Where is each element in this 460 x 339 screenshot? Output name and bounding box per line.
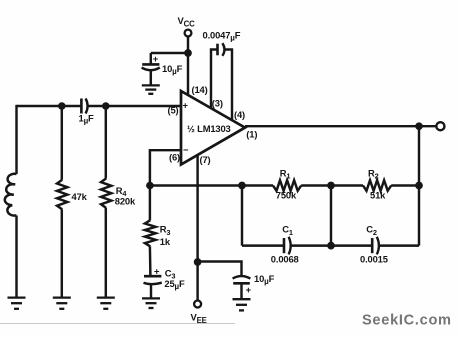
label 10uF (VCC) bbox=[162, 63, 183, 76]
svg-text:(1): (1) bbox=[246, 129, 257, 140]
watermark SeekIC.com bbox=[362, 313, 452, 329]
svg-text:(7): (7) bbox=[200, 154, 211, 165]
node VEE junction bbox=[194, 258, 202, 266]
label VCC bbox=[178, 15, 196, 29]
label + (10uF VCC) bbox=[153, 53, 159, 64]
label VEE bbox=[191, 311, 207, 325]
node VCC junction bbox=[184, 49, 192, 57]
pin label (1) bbox=[246, 129, 257, 140]
capacitor C3 25uF (polarized) bbox=[144, 276, 162, 298]
wire feedback mid vertical bbox=[330, 186, 332, 246]
pin label (3) bbox=[212, 97, 223, 108]
pin label (14) bbox=[192, 84, 208, 95]
resistor R1 750k bbox=[273, 180, 301, 191]
label C3 25uF bbox=[164, 267, 185, 291]
svg-text:750k: 750k bbox=[276, 189, 297, 200]
svg-text:51k: 51k bbox=[370, 189, 386, 200]
ground (VEE bypass) bbox=[233, 299, 251, 310]
capacitor 10uF (VCC bypass, polarized) bbox=[142, 53, 160, 85]
label R3 1k bbox=[160, 224, 171, 247]
pin label (7) bbox=[200, 154, 211, 165]
resistor R4 820k bbox=[101, 106, 111, 298]
svg-text:47k: 47k bbox=[72, 191, 88, 202]
op-amp U1 1/2 LM1303 bbox=[181, 91, 245, 165]
wire feedback right vertical bbox=[418, 126, 420, 245]
ground (47k) bbox=[53, 298, 71, 309]
node C1-C2 junction bbox=[327, 242, 335, 250]
node input/R4 junction bbox=[102, 102, 110, 110]
terminal output bbox=[436, 122, 444, 130]
scan artifact line bbox=[0, 323, 235, 325]
node R3/pin6 junction bbox=[146, 182, 154, 190]
wire input bus (antenna node to pin 5) bbox=[17, 105, 182, 107]
wire VCC to op-amp pin 14 bbox=[187, 37, 189, 95]
node input/47k junction bbox=[58, 102, 66, 110]
svg-text:(6): (6) bbox=[169, 151, 180, 162]
node output/feedback junction bbox=[415, 122, 423, 130]
wire VCC to C bypass bbox=[151, 52, 188, 54]
wire output (pin 1) bbox=[245, 125, 436, 127]
label 0.0047uF bbox=[203, 29, 241, 42]
svg-text:0.0015: 0.0015 bbox=[360, 254, 388, 265]
node feedback left bbox=[238, 182, 246, 190]
node R1-R2 junction bbox=[327, 182, 335, 190]
terminal VCC bbox=[185, 30, 192, 37]
svg-text:0.0068: 0.0068 bbox=[271, 254, 299, 265]
inductor L1 bbox=[5, 105, 17, 298]
capacitor 10uF (VEE bypass, polarized) bbox=[233, 276, 251, 299]
label C1 0.0068 bbox=[271, 224, 299, 265]
svg-text:(4): (4) bbox=[234, 109, 245, 120]
label 1uF bbox=[79, 113, 95, 126]
svg-text:(5): (5) bbox=[168, 105, 179, 116]
pin label (5) bbox=[168, 105, 179, 116]
svg-text:−: − bbox=[183, 144, 189, 155]
svg-text:+: + bbox=[154, 265, 160, 276]
wire VEE to 10uF bypass bbox=[198, 262, 242, 276]
svg-text:(14): (14) bbox=[192, 84, 208, 95]
wire inverting node row bbox=[150, 184, 242, 186]
label + (C3) bbox=[154, 265, 160, 276]
pin label (6) bbox=[169, 151, 180, 162]
pin label (4) bbox=[234, 109, 245, 120]
wire capacitor row bbox=[242, 244, 419, 246]
svg-text:½ LM1303: ½ LM1303 bbox=[187, 123, 231, 134]
capacitor 0.0047uF (pins 3-4) bbox=[211, 43, 232, 119]
label 47k bbox=[72, 191, 88, 202]
svg-text:1k: 1k bbox=[160, 236, 171, 247]
svg-text:820k: 820k bbox=[115, 196, 136, 207]
ground (C3) bbox=[142, 298, 160, 308]
resistor R3 1k bbox=[145, 186, 156, 276]
ground (inductor) bbox=[8, 298, 26, 309]
capacitor C2 0.0015 bbox=[372, 237, 379, 255]
wire feedback left vertical bbox=[241, 186, 243, 246]
node feedback right bbox=[415, 182, 423, 190]
capacitor C1 0.0068 bbox=[284, 237, 291, 255]
terminal VEE bbox=[194, 301, 201, 308]
label 10uF (VEE) bbox=[254, 273, 275, 286]
svg-text:+: + bbox=[153, 53, 159, 64]
wire pin 7 to VEE bbox=[196, 155, 198, 300]
wire feedback row bbox=[242, 184, 419, 186]
label R1 750k bbox=[276, 168, 297, 201]
svg-text:+: + bbox=[183, 99, 189, 110]
ground (VCC bypass) bbox=[142, 85, 160, 93]
label R4 820k bbox=[115, 185, 136, 207]
capacitor 1uF (series input) bbox=[81, 99, 87, 114]
label C2 0.0015 bbox=[360, 224, 388, 265]
svg-text:(3): (3) bbox=[212, 97, 223, 108]
svg-text:+: + bbox=[246, 284, 252, 295]
label R2 51k bbox=[368, 168, 386, 201]
ground (R4) bbox=[97, 298, 115, 309]
resistor R2 51k bbox=[363, 180, 391, 191]
svg-text:SeekIC.com: SeekIC.com bbox=[362, 313, 452, 329]
wire pin 6 stub bbox=[150, 150, 181, 185]
label + (VEE 10uF) bbox=[246, 284, 252, 295]
resistor 47k bbox=[57, 106, 67, 298]
